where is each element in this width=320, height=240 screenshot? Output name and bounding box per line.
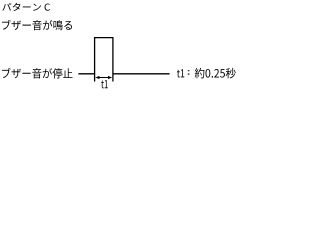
label: t1 (interval label under arrow) (101, 80, 108, 88)
label: パターン C (Pattern C heading) (2, 3, 50, 11)
wire: baseline right segment (113, 73, 170, 75)
dimension arrow t1 (double-headed) (95, 76, 112, 79)
label: ： (colon) (188, 70, 190, 74)
label: ブザー音が停止 (buzzer stops) (2, 68, 73, 78)
label: 約0.25秒 (approx 0.25 s) (195, 68, 236, 79)
label: t1 (right annotation) (177, 69, 184, 77)
wire: pulse rising edge (left vertical, extends below baseline) (94, 37, 96, 82)
wire: pulse falling edge (right vertical, extends below baseline) (112, 37, 114, 82)
label: ブザー音が鳴る (buzzer sounds) (2, 20, 72, 30)
wire: baseline left segment (78, 73, 94, 75)
wire: pulse top segment (94, 37, 114, 39)
